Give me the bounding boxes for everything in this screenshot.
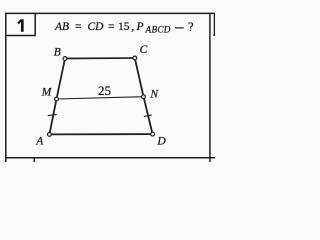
- svg-text:M: M: [41, 87, 53, 99]
- svg-text:25: 25: [98, 83, 111, 98]
- svg-text:D: D: [156, 135, 166, 147]
- svg-text:C: C: [140, 44, 148, 56]
- svg-text:N: N: [149, 89, 159, 101]
- svg-text:A: A: [35, 135, 44, 147]
- svg-text:B: B: [54, 47, 61, 59]
